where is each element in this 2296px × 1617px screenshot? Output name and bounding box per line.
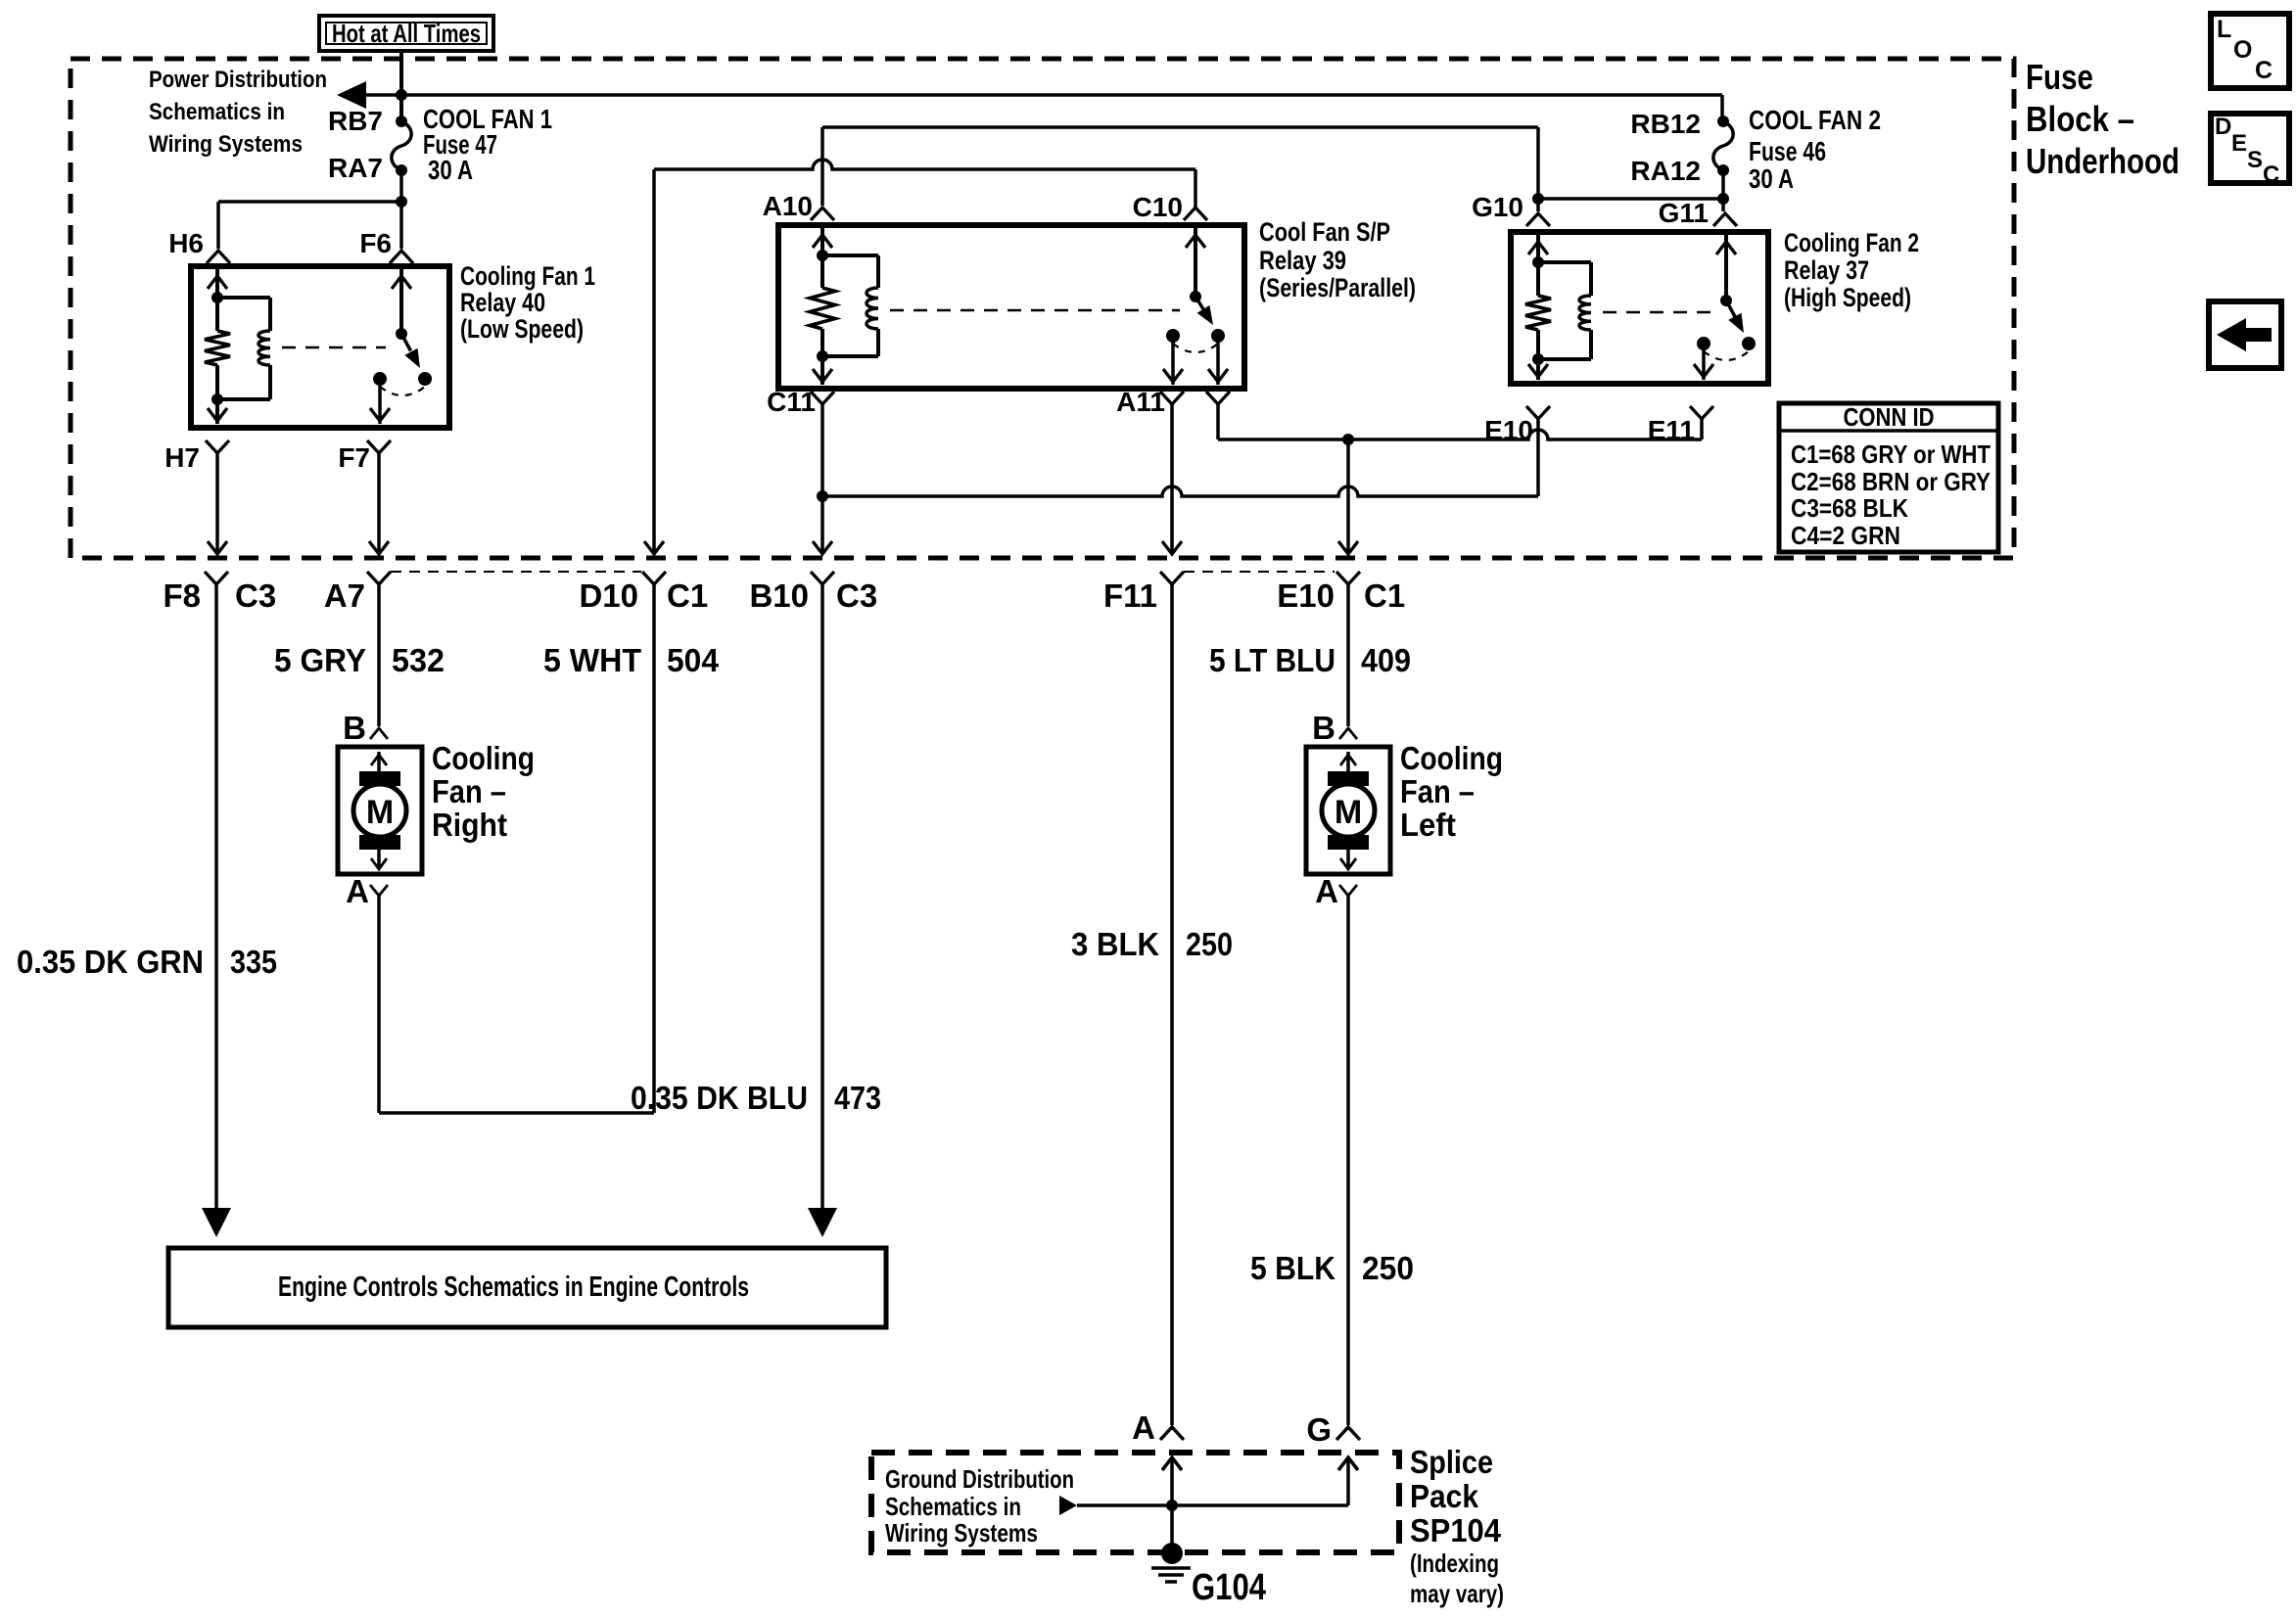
svg-text:C1: C1 <box>667 577 708 614</box>
arrowhead splice A up <box>1162 1457 1182 1470</box>
connector pin E10 <box>1526 406 1550 419</box>
svg-text:A7: A7 <box>324 577 365 614</box>
svg-text:Wiring Systems: Wiring Systems <box>885 1518 1038 1548</box>
svg-text:335: 335 <box>230 944 277 980</box>
connector dashed link F11 to E10 <box>1184 571 1335 573</box>
wire: E10 to C11 control net <box>1536 419 1540 496</box>
terminal B cooling fan right <box>370 728 388 739</box>
svg-text:Relay 37: Relay 37 <box>1784 255 1869 285</box>
wire: D10 vertical feed inside fuse block <box>652 169 656 554</box>
fuse F46 COOL FAN 2 element <box>1713 121 1733 170</box>
svg-text:F8: F8 <box>163 577 201 614</box>
wire: battery feed from Hot at All Times down to fuse 47 and across (node B+) <box>399 51 403 119</box>
power tag box: Hot at All Times <box>319 16 493 51</box>
svg-text:G11: G11 <box>1659 198 1709 228</box>
wire: fan left A to splice pack terminal G (5 BLK 250) <box>1346 896 1350 1425</box>
svg-text:0.35 DK GRN: 0.35 DK GRN <box>17 944 204 980</box>
terminal A cooling fan left <box>1339 885 1357 896</box>
connector pin relay39 switch output <box>1206 392 1230 404</box>
connector pin F6 <box>390 251 413 263</box>
arrowhead into engine controls box left <box>202 1208 231 1237</box>
connector D10 of C1 <box>642 572 666 584</box>
svg-text:30 A: 30 A <box>1749 163 1794 194</box>
connector pin C10 <box>1184 208 1207 220</box>
svg-text:C: C <box>2263 162 2279 188</box>
svg-text:may vary): may vary) <box>1410 1579 1504 1608</box>
svg-text:5 BLK: 5 BLK <box>1250 1250 1335 1286</box>
svg-text:A: A <box>1132 1409 1155 1446</box>
wire: A10 riser from power corner with hop over C10 line <box>820 127 824 206</box>
svg-text:250: 250 <box>1186 926 1233 962</box>
svg-text:G: G <box>1306 1411 1332 1448</box>
svg-text:A10: A10 <box>763 191 813 221</box>
svg-text:H7: H7 <box>164 442 200 473</box>
svg-text:A: A <box>1315 873 1338 909</box>
wire: A7 to cooling fan right terminal B <box>377 584 381 726</box>
svg-text:(Low Speed): (Low Speed) <box>460 314 584 344</box>
svg-text:532: 532 <box>392 642 445 678</box>
connector dashed link A7 to D10 <box>391 571 641 573</box>
svg-text:RA12: RA12 <box>1630 156 1701 186</box>
connector B10 of C3 <box>811 572 834 584</box>
svg-text:RB12: RB12 <box>1630 109 1701 139</box>
svg-text:3 BLK: 3 BLK <box>1071 926 1159 962</box>
svg-text:Left: Left <box>1400 807 1456 843</box>
relay K40 Cooling Fan 1 Relay (Low Speed) <box>191 266 449 428</box>
back arrow box <box>2209 301 2281 368</box>
svg-text:Engine Controls Schematics in: Engine Controls Schematics in Engine Con… <box>278 1271 749 1303</box>
arrowhead to Power Distribution Schematics <box>337 81 366 109</box>
splice pack terminal G <box>1336 1427 1360 1440</box>
svg-text:F7: F7 <box>338 442 370 473</box>
wire: H7 to fuse block edge <box>215 453 219 554</box>
connector A7 of C1 <box>367 572 391 584</box>
wire: fan right A to D10 (5 WHT 504 return) <box>377 896 381 1113</box>
svg-text:Fuse: Fuse <box>2026 57 2093 97</box>
svg-text:473: 473 <box>834 1080 881 1116</box>
DESC reference box <box>2211 114 2289 183</box>
arrowhead splice G up <box>1338 1457 1358 1470</box>
arrowhead F7 wire exits fuse block <box>369 541 389 554</box>
svg-text:C11: C11 <box>767 387 816 417</box>
svg-text:Fuse 46: Fuse 46 <box>1749 136 1826 166</box>
svg-text:30 A: 30 A <box>428 155 473 185</box>
terminal A cooling fan right <box>370 885 388 896</box>
svg-text:Cooling: Cooling <box>432 740 535 776</box>
motor M1 Cooling Fan Right <box>338 747 422 874</box>
svg-text:C10: C10 <box>1133 192 1183 222</box>
connector pin G10 <box>1526 213 1550 226</box>
svg-text:C4=2 GRN: C4=2 GRN <box>1791 521 1900 550</box>
svg-text:A11: A11 <box>1116 387 1165 417</box>
svg-text:D10: D10 <box>579 577 638 614</box>
svg-text:D: D <box>2215 114 2231 140</box>
svg-text:(Indexing: (Indexing <box>1410 1548 1499 1578</box>
wire: F11 to splice pack terminal A (3 BLK 250) <box>1170 584 1174 1425</box>
splice pack terminal A <box>1160 1427 1184 1440</box>
engine controls schematics box <box>168 1248 886 1327</box>
svg-text:RA7: RA7 <box>328 153 383 183</box>
svg-text:5 LT BLU: 5 LT BLU <box>1209 642 1335 678</box>
svg-text:SP104: SP104 <box>1410 1512 1502 1548</box>
terminal B cooling fan left <box>1339 728 1357 739</box>
svg-text:(Series/Parallel): (Series/Parallel) <box>1259 273 1416 302</box>
splice pack SP104 dashed box <box>871 1453 1399 1552</box>
wire: F8 to engine controls (0.35 DK GRN 335) <box>214 584 218 1222</box>
wire: A11 down to fuse block edge (node A11/F11) <box>1170 404 1174 554</box>
connector pin E11 <box>1690 406 1713 419</box>
svg-text:L: L <box>2217 16 2231 43</box>
svg-text:Relay 39: Relay 39 <box>1259 246 1346 275</box>
svg-text:G10: G10 <box>1472 192 1523 222</box>
svg-text:Cooling: Cooling <box>1400 740 1503 776</box>
connector pin A11 <box>1160 392 1184 404</box>
connector E10 of C1 <box>1336 572 1360 584</box>
svg-text:C2=68 BRN or GRY: C2=68 BRN or GRY <box>1791 467 1991 496</box>
connector pin H7 <box>206 440 229 453</box>
svg-text:5 WHT: 5 WHT <box>543 642 641 678</box>
connector F8 of C3 <box>205 572 228 584</box>
svg-text:F6: F6 <box>359 228 392 258</box>
svg-text:B: B <box>343 710 366 746</box>
connector pin H6 <box>207 251 230 263</box>
svg-text:Cooling Fan 1: Cooling Fan 1 <box>460 261 595 291</box>
svg-text:Cooling Fan 2: Cooling Fan 2 <box>1784 228 1919 257</box>
svg-text:(High Speed): (High Speed) <box>1784 283 1911 312</box>
svg-text:E: E <box>2231 130 2247 157</box>
svg-text:Relay 40: Relay 40 <box>460 288 545 317</box>
wire: relay39 output to E11 and fan feed (node E11 net) <box>1216 404 1220 439</box>
junction dot splice bus <box>1166 1500 1178 1511</box>
arrowhead into engine controls box right <box>808 1208 837 1237</box>
svg-text:E11: E11 <box>1648 415 1695 445</box>
svg-text:H6: H6 <box>168 228 204 258</box>
svg-text:M: M <box>1335 794 1362 831</box>
svg-text:A: A <box>346 873 369 909</box>
svg-text:Right: Right <box>432 807 507 843</box>
svg-text:Schematics in: Schematics in <box>149 99 285 125</box>
LOC reference box <box>2211 14 2289 88</box>
junction dot G10 corner <box>1532 193 1544 205</box>
arrowhead C11 wire exits fuse block <box>813 541 832 554</box>
motor M2 Cooling Fan Left <box>1306 747 1390 874</box>
svg-text:COOL FAN 2: COOL FAN 2 <box>1749 105 1881 135</box>
wire: G10 branch to fuse 46 output <box>1538 197 1723 201</box>
svg-text:Wiring Systems: Wiring Systems <box>149 131 303 158</box>
arrowhead fan feed wire exits fuse block <box>1338 541 1358 554</box>
junction dot G11 below RA12 <box>1717 193 1729 205</box>
wire: E10 to cooling fan left terminal B <box>1346 584 1350 726</box>
svg-text:Fan –: Fan – <box>432 773 506 809</box>
junction dot E11 net to fan left feed <box>1342 434 1354 445</box>
connector F11 <box>1160 572 1184 584</box>
svg-text:0.35 DK BLU: 0.35 DK BLU <box>631 1080 808 1116</box>
fuse F46 terminal RB12 <box>1717 115 1729 127</box>
svg-text:B: B <box>1312 710 1335 746</box>
svg-text:C1: C1 <box>1364 577 1405 614</box>
fuse F47 terminal RA7 <box>396 164 407 176</box>
arrowhead A11 wire exits fuse block <box>1162 541 1182 554</box>
svg-text:Power Distribution: Power Distribution <box>149 67 327 93</box>
arrowhead H7 wire exits fuse block <box>208 541 227 554</box>
svg-text:M: M <box>366 794 394 831</box>
fuse block dashed outline box <box>70 59 2014 558</box>
wire: fuse output to relay39 C10 with hop at A10 riser <box>654 160 1195 169</box>
svg-text:409: 409 <box>1361 642 1411 678</box>
fuse F46 terminal RA12 <box>1717 164 1729 176</box>
wire: F7 to fuse block edge <box>377 453 381 554</box>
svg-text:Hot at All Times: Hot at All Times <box>332 19 481 48</box>
ground G104 <box>1161 1543 1183 1564</box>
svg-text:O: O <box>2233 36 2252 64</box>
svg-text:Splice: Splice <box>1410 1444 1493 1480</box>
svg-text:C3: C3 <box>836 577 877 614</box>
connector pin A10 <box>811 208 834 220</box>
fuse F47 terminal RB7 <box>396 115 407 127</box>
svg-text:C3=68 BLK: C3=68 BLK <box>1791 493 1908 523</box>
junction dot at hot feed <box>396 89 407 101</box>
connector pin C11 <box>811 392 834 404</box>
connector pin G11 <box>1713 213 1737 226</box>
junction dot C11 tap <box>817 490 828 502</box>
fuse F47 COOL FAN 1 element <box>392 121 411 170</box>
relay K39 Cool Fan S/P Relay (Series/Parallel) <box>778 225 1244 389</box>
svg-text:Pack: Pack <box>1410 1478 1479 1514</box>
CONN ID table <box>1779 403 1998 552</box>
junction dot RA7 branch <box>396 196 407 208</box>
svg-text:C3: C3 <box>235 577 276 614</box>
svg-text:Cool Fan S/P: Cool Fan S/P <box>1259 217 1390 247</box>
svg-text:C: C <box>2255 57 2273 84</box>
svg-text:Block –: Block – <box>2026 99 2134 139</box>
svg-text:C1=68 GRY or WHT: C1=68 GRY or WHT <box>1791 439 1991 469</box>
svg-text:F11: F11 <box>1103 577 1157 614</box>
ground distribution feed triangle <box>1059 1496 1077 1515</box>
svg-text:250: 250 <box>1362 1250 1414 1286</box>
svg-text:RB7: RB7 <box>328 106 383 136</box>
wire: splice bus SP104 <box>1077 1503 1348 1507</box>
connector pin F7 <box>367 440 391 453</box>
wire: RA7 to relay 40 pins H6 and F6 <box>399 170 403 249</box>
svg-text:Fan –: Fan – <box>1400 773 1475 809</box>
svg-text:B10: B10 <box>749 577 809 614</box>
svg-text:Schematics in: Schematics in <box>885 1492 1021 1521</box>
svg-text:504: 504 <box>667 642 720 678</box>
svg-text:Ground Distribution: Ground Distribution <box>885 1464 1074 1494</box>
wire: B10 to engine controls (0.35 DK BLU 473) <box>820 584 824 1222</box>
svg-text:5 GRY: 5 GRY <box>274 642 366 678</box>
svg-text:S: S <box>2247 147 2263 173</box>
svg-text:E10: E10 <box>1484 415 1533 445</box>
svg-text:G104: G104 <box>1192 1567 1266 1608</box>
svg-text:CONN ID: CONN ID <box>1844 402 1935 432</box>
svg-text:E10: E10 <box>1277 577 1335 614</box>
wire: C11 down to fuse block edge (node C11/B10) <box>820 404 824 554</box>
svg-text:Underhood: Underhood <box>2026 141 2179 181</box>
relay K37 Cooling Fan 2 Relay (High Speed) <box>1511 232 1768 384</box>
